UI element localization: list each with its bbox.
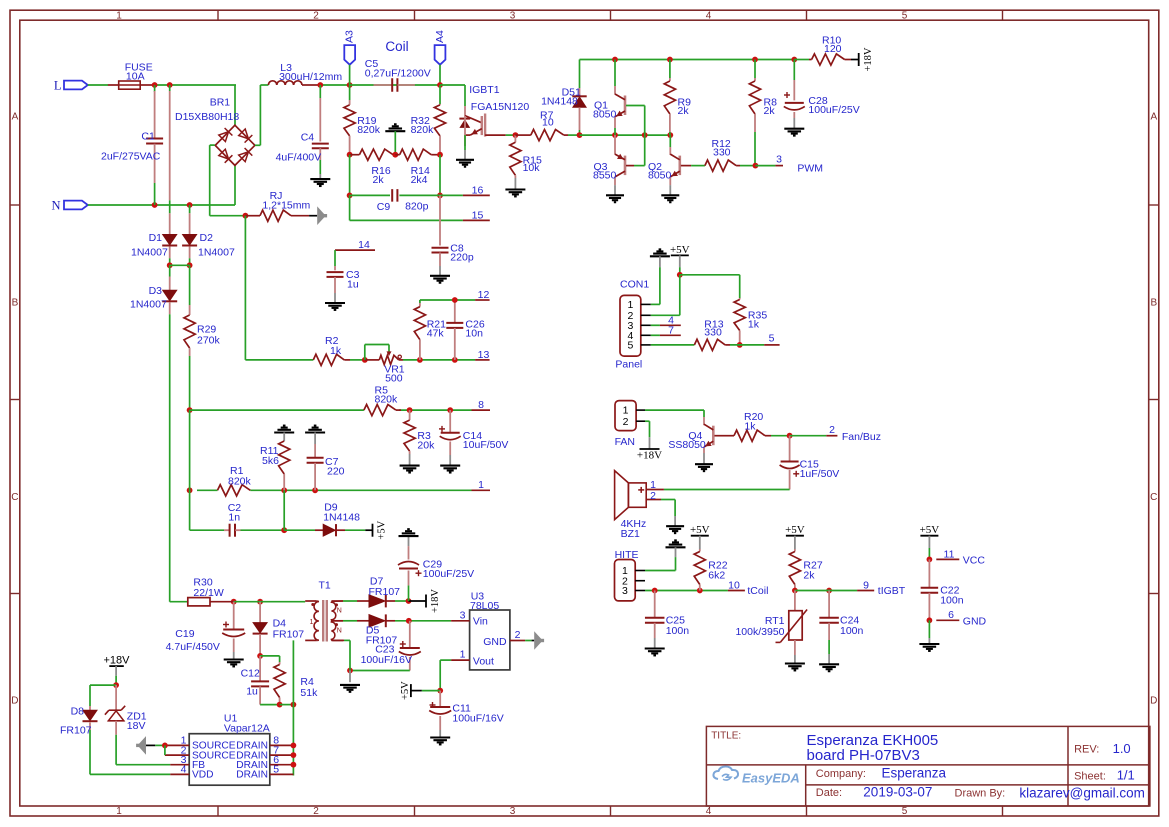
net 6 GND wire	[927, 609, 987, 644]
svg-text:7: 7	[668, 324, 674, 336]
svg-text:3: 3	[510, 10, 516, 21]
resistor R30 22/1W	[188, 576, 234, 605]
resistor R1 820k	[218, 465, 252, 496]
capacitor C24 100n	[819, 591, 863, 665]
net DC+ : L3 to C4 A3 C5	[317, 82, 440, 88]
svg-text:+18V: +18V	[863, 47, 874, 71]
svg-text:A4: A4	[434, 30, 446, 43]
svg-text:8050: 8050	[593, 108, 617, 120]
capacitor C11 100uF/16V	[429, 691, 504, 738]
resistor R27 2k	[789, 549, 823, 591]
capacitor C4 4uF/400V	[276, 85, 329, 179]
svg-text:20k: 20k	[417, 440, 435, 452]
svg-text:11: 11	[944, 548, 955, 560]
connector HITE	[615, 549, 646, 601]
svg-text:3: 3	[776, 154, 782, 166]
svg-text:+5V: +5V	[400, 681, 411, 700]
ground below C14	[440, 465, 460, 467]
svg-text:8: 8	[478, 399, 484, 411]
svg-text:8550: 8550	[593, 170, 617, 182]
ground below C25	[645, 647, 665, 649]
ground below R15	[505, 188, 525, 190]
svg-text:13: 13	[478, 349, 490, 361]
svg-text:2k: 2k	[803, 569, 815, 581]
svg-text:B: B	[12, 298, 19, 309]
svg-text:10n: 10n	[465, 328, 483, 340]
svg-text:+5V: +5V	[377, 520, 388, 539]
IC U3 78L05	[451, 591, 525, 670]
svg-text:820p: 820p	[405, 201, 429, 213]
svg-text:FR107: FR107	[369, 586, 401, 598]
transistor Q1 8050	[593, 60, 645, 136]
svg-text:9: 9	[863, 579, 869, 591]
svg-text:Vin: Vin	[473, 616, 488, 628]
diode D9 1N4148	[315, 502, 360, 537]
svg-text:Sheet:: Sheet:	[1074, 771, 1106, 783]
gray arrow net flag at RJ	[317, 206, 326, 225]
connector CON1	[615, 279, 650, 371]
ground above R16 R14	[385, 124, 405, 154]
ground above C7	[305, 426, 325, 458]
svg-text:330: 330	[713, 147, 731, 159]
resistor R14 2k4	[395, 149, 443, 186]
resistor R32 820k	[411, 104, 446, 155]
drive net wire y135	[580, 106, 674, 166]
svg-text:4.7uF/450V: 4.7uF/450V	[166, 641, 220, 653]
svg-text:1N4148: 1N4148	[323, 511, 360, 523]
ground below C22	[919, 643, 939, 645]
capacitor C8 220p	[432, 195, 474, 275]
svg-text:Panel: Panel	[615, 359, 642, 371]
capacitor C26 10n	[446, 300, 485, 360]
resistor R22 6k2	[694, 549, 728, 591]
svg-text:Date:: Date:	[816, 787, 842, 799]
capacitor C14 10uF/50V	[439, 410, 508, 466]
svg-text:FGA15N120: FGA15N120	[471, 101, 530, 113]
svg-text:4uF/400V: 4uF/400V	[276, 151, 322, 163]
gray arrow net flag at U1 pin1	[136, 736, 168, 755]
net label 3 PWM	[776, 154, 823, 175]
svg-text:1n: 1n	[228, 511, 240, 523]
net 1 wire	[187, 487, 490, 493]
capacitor C25 100n	[645, 591, 689, 649]
ground below C19	[224, 658, 244, 660]
svg-text:100uF/16V: 100uF/16V	[361, 654, 412, 666]
svg-text:1N4007: 1N4007	[131, 247, 168, 259]
svg-text:+18V: +18V	[430, 589, 441, 613]
svg-text:100uF/16V: 100uF/16V	[452, 713, 503, 725]
svg-text:2uF/275VAC: 2uF/275VAC	[101, 151, 161, 163]
svg-text:VCC: VCC	[963, 555, 986, 567]
svg-text:N: N	[337, 628, 342, 635]
svg-text:Vout: Vout	[473, 655, 494, 667]
svg-text:N: N	[51, 198, 60, 212]
svg-text:Esperanza: Esperanza	[882, 766, 947, 781]
capacitor C12 1u	[241, 656, 280, 705]
+18V rail wire	[580, 57, 798, 63]
svg-text:PWM: PWM	[797, 163, 823, 175]
wire T1 secondary mid to D5	[331, 620, 369, 622]
ground below C23 return	[340, 684, 360, 686]
junction gate node	[513, 132, 519, 138]
svg-text:Company:: Company:	[816, 768, 866, 780]
svg-text:15: 15	[472, 209, 484, 221]
svg-text:14: 14	[358, 239, 370, 251]
connector FAN	[615, 401, 645, 448]
svg-text:klazarev@gmail.com: klazarev@gmail.com	[1019, 785, 1145, 800]
svg-text:1k: 1k	[330, 345, 342, 357]
ground above R11	[274, 426, 294, 441]
wire R4 to primary return	[280, 640, 297, 775]
diode D7 FR107	[369, 576, 409, 608]
net flag +5V at R27	[785, 524, 805, 549]
svg-text:D1: D1	[149, 232, 163, 244]
net flag +5V at CON1	[670, 244, 690, 275]
diode D51 1N4148	[541, 60, 587, 139]
wire L to FUSE	[88, 84, 108, 86]
transistor IGBT1 FGA15N120	[459, 84, 529, 160]
svg-text:6: 6	[948, 609, 954, 621]
svg-text:5: 5	[902, 10, 908, 21]
net flag +5V at R22	[690, 524, 710, 549]
capacitor C5 0,27uF/1200V	[365, 58, 431, 92]
buzzer BZ1 4KHz	[615, 471, 664, 540]
svg-text:Fan/Buz: Fan/Buz	[842, 431, 881, 443]
svg-text:820k: 820k	[411, 124, 435, 136]
svg-text:Coil: Coil	[385, 39, 408, 54]
svg-text:N: N	[337, 608, 342, 615]
transistor Q2 8050	[648, 135, 691, 195]
svg-text:+18V: +18V	[637, 450, 662, 462]
svg-text:3: 3	[510, 806, 516, 817]
svg-text:BZ1: BZ1	[621, 528, 640, 540]
capacitor C22 100n	[921, 559, 964, 620]
title block	[706, 726, 1150, 806]
EasyEDA logo	[713, 767, 799, 786]
net A4 wire to R32 IGBT	[437, 82, 465, 106]
diode D3 1N4007	[130, 265, 177, 314]
ground below C24	[819, 663, 839, 665]
svg-text:1u: 1u	[246, 685, 258, 697]
svg-text:2: 2	[829, 424, 835, 436]
svg-text:2: 2	[650, 490, 656, 502]
svg-text:C12: C12	[241, 667, 260, 679]
svg-text:FAN: FAN	[615, 436, 635, 448]
resistor R5 820k	[364, 385, 401, 416]
svg-text:120: 120	[824, 43, 842, 55]
resistor R11 5k6	[260, 441, 290, 490]
transistor Q3 8550	[593, 135, 645, 195]
svg-text:T1: T1	[319, 580, 331, 592]
transformer T1	[305, 580, 343, 642]
capacitor C2 1n	[224, 502, 241, 537]
zener diode ZD1 18V	[105, 685, 147, 735]
svg-text:DRAIN: DRAIN	[236, 770, 268, 781]
svg-text:820k: 820k	[375, 394, 399, 406]
svg-text:+5V: +5V	[690, 524, 710, 536]
port L	[54, 78, 88, 92]
svg-text:D8: D8	[71, 706, 85, 718]
svg-text:SS8050: SS8050	[668, 439, 706, 451]
diode D8 FR107	[60, 706, 98, 737]
svg-text:5: 5	[627, 340, 633, 352]
net 13 wire	[403, 357, 490, 363]
svg-text:1N4007: 1N4007	[198, 247, 235, 259]
resistor R21 47k	[414, 300, 446, 360]
wire C15 to buzzer pin1	[664, 489, 790, 491]
wire BZ1 pin2 to ground	[661, 500, 675, 527]
svg-text:FR107: FR107	[273, 629, 305, 641]
resistor R15 10k	[510, 135, 542, 189]
svg-text:100n: 100n	[940, 594, 964, 606]
potentiometer VR1 500	[362, 345, 405, 385]
svg-text:tCoil: tCoil	[747, 585, 768, 597]
svg-text:500: 500	[385, 373, 403, 385]
svg-text:1: 1	[310, 619, 314, 626]
ground below BZ1	[666, 525, 684, 527]
net U3 Vout +5V	[411, 660, 451, 693]
diode D5 FR107	[366, 614, 451, 646]
svg-text:GND: GND	[963, 616, 987, 628]
svg-text:51k: 51k	[300, 687, 318, 699]
svg-text:C4: C4	[301, 132, 315, 144]
svg-text:2k: 2k	[373, 174, 385, 186]
thermistor RT1 100k/3950	[735, 591, 807, 664]
svg-text:47k: 47k	[427, 328, 445, 340]
svg-text:Drawn By:: Drawn By:	[955, 788, 1006, 800]
ground below C28	[784, 128, 804, 130]
wire CON1 pin2	[651, 314, 680, 316]
net L2: fuse to C1 D1 BR1	[152, 82, 236, 125]
diode D4 FR107	[253, 602, 305, 656]
svg-text:1uF/50V: 1uF/50V	[800, 468, 840, 480]
svg-text:100k/3950: 100k/3950	[735, 626, 784, 638]
svg-text:3: 3	[622, 585, 628, 597]
svg-text:10A: 10A	[126, 70, 145, 82]
svg-text:1N4148: 1N4148	[541, 96, 578, 108]
net 14 wire	[335, 250, 375, 266]
wire T1 secondary bottom	[331, 640, 350, 670]
wire D8 to U1 VDD	[90, 730, 170, 774]
net C2 D9 wire	[190, 410, 373, 533]
svg-text:CON1: CON1	[620, 279, 649, 291]
net 16 wires / C9	[347, 155, 490, 199]
svg-text:5k6: 5k6	[262, 455, 279, 467]
svg-text:+5V: +5V	[670, 244, 690, 256]
svg-text:1: 1	[478, 479, 484, 491]
capacitor C23 100uF/16V	[361, 621, 421, 671]
svg-text:220p: 220p	[450, 252, 474, 264]
svg-text:D2: D2	[200, 232, 214, 244]
svg-text:A3: A3	[344, 30, 356, 43]
svg-text:1N4007: 1N4007	[130, 299, 167, 311]
svg-text:BR1: BR1	[210, 97, 231, 109]
ground below C4	[310, 178, 330, 180]
net 2 Fan/Buz wire	[787, 424, 881, 443]
svg-text:1: 1	[460, 649, 466, 661]
svg-text:GND: GND	[483, 636, 507, 648]
svg-text:tIGBT: tIGBT	[878, 585, 906, 597]
resistor R8 2k	[749, 60, 777, 166]
capacitor C28 100uF/25V	[784, 60, 860, 129]
svg-text:3: 3	[460, 609, 466, 621]
svg-text:10k: 10k	[523, 162, 541, 174]
svg-text:5: 5	[769, 333, 775, 345]
svg-text:1/1: 1/1	[1117, 768, 1135, 783]
svg-text:VDD: VDD	[192, 770, 214, 781]
svg-text:820k: 820k	[357, 124, 381, 136]
svg-text:C: C	[11, 492, 18, 503]
svg-text:2k: 2k	[678, 105, 690, 117]
svg-text:8050: 8050	[648, 170, 672, 182]
IC U1 Vapar12A	[165, 713, 296, 786]
svg-text:C1: C1	[141, 131, 155, 143]
ground below RT1	[785, 662, 805, 664]
net flag A4	[434, 30, 446, 85]
ground below C3	[325, 302, 345, 304]
svg-text:2: 2	[515, 629, 521, 641]
wire C23 bottom to ground	[347, 668, 410, 683]
resistor R12 330	[691, 138, 783, 171]
svg-text:A: A	[1150, 112, 1157, 123]
svg-text:1,2*15mm: 1,2*15mm	[262, 200, 310, 212]
svg-text:REV:: REV:	[1074, 744, 1099, 756]
svg-text:18V: 18V	[127, 720, 146, 732]
svg-text:2: 2	[313, 10, 319, 21]
transistor Q4 SS8050	[668, 417, 718, 464]
ground above C29	[399, 535, 419, 537]
wire ZD1 to U1 FB	[116, 735, 170, 765]
svg-text:100n: 100n	[840, 625, 864, 637]
resistor R16 2k	[347, 149, 398, 186]
net 5 wire CON1 pin5	[651, 333, 780, 348]
svg-text:IGBT1: IGBT1	[469, 84, 500, 96]
capacitor C15 1uF/50V	[780, 436, 840, 490]
capacitor C3 1u	[327, 266, 360, 303]
resistor R10 120	[794, 35, 858, 66]
junction D1 D2 D3	[167, 262, 193, 268]
net flag +18V at D7	[425, 595, 427, 608]
svg-text:+5V: +5V	[785, 524, 805, 536]
net D7 out +18V C29	[406, 598, 426, 604]
svg-text:L: L	[54, 78, 62, 92]
port N	[51, 198, 87, 212]
svg-text:2: 2	[313, 806, 319, 817]
svg-text:1k: 1k	[748, 318, 760, 330]
gray arrow net flag at U3 GND	[534, 631, 543, 650]
svg-text:22/1W: 22/1W	[193, 587, 223, 599]
capacitor C29 100uF/25V	[398, 536, 474, 601]
svg-text:C: C	[1150, 492, 1157, 503]
ground above CON1 pin1	[650, 249, 670, 304]
bridge rectifier BR1 D15XB80H18	[175, 97, 255, 166]
svg-text:100uF/25V: 100uF/25V	[423, 568, 474, 580]
net flag +5V at D9	[372, 524, 374, 537]
resistor R4 51k	[274, 662, 318, 707]
svg-text:1.0: 1.0	[1113, 741, 1131, 756]
svg-text:1: 1	[116, 10, 122, 21]
fuse FUSE 10A	[108, 62, 153, 90]
svg-text:2k4: 2k4	[411, 174, 428, 186]
svg-text:10: 10	[728, 579, 740, 591]
svg-text:+5V: +5V	[920, 524, 940, 536]
svg-text:6k2: 6k2	[708, 569, 725, 581]
svg-text:EasyEDA: EasyEDA	[742, 771, 800, 786]
resistor R3 20k	[404, 410, 435, 466]
svg-text:2k: 2k	[764, 105, 776, 117]
diode D2 1N4007	[182, 205, 235, 265]
svg-text:TITLE:: TITLE:	[711, 731, 741, 742]
svg-text:Vapar12A: Vapar12A	[224, 722, 270, 734]
ground below R3	[400, 465, 420, 467]
net 15 wire	[350, 195, 490, 220]
svg-text:220: 220	[327, 466, 345, 478]
wire T1 secondary top to D7	[331, 600, 369, 602]
svg-text:D: D	[11, 696, 18, 707]
ground below IGBT1	[456, 159, 474, 161]
net 8 wire	[187, 407, 490, 413]
svg-text:12: 12	[478, 289, 490, 301]
net flag +18V bottom left	[104, 655, 131, 685]
svg-text:0,27uF/1200V: 0,27uF/1200V	[365, 68, 431, 80]
resistor R13 330	[694, 318, 730, 350]
net 11 VCC wire	[927, 548, 986, 566]
resistor R35 1k	[734, 298, 767, 345]
resistor R29 270k	[184, 265, 221, 410]
svg-text:A: A	[12, 112, 19, 123]
svg-text:C9: C9	[377, 201, 391, 213]
ground below Q3	[606, 194, 624, 196]
capacitor C9 820p	[377, 189, 429, 213]
ground below Q2	[661, 194, 679, 196]
wire D3 down to R30 line	[169, 314, 171, 602]
resistor R9 2k	[664, 60, 691, 136]
svg-text:D: D	[1150, 696, 1157, 707]
net +18V to D8 ZD1	[90, 682, 119, 706]
capacitor C7 220	[307, 456, 345, 491]
net 9 tIGBT wire	[792, 579, 906, 597]
svg-text:C19: C19	[175, 628, 194, 640]
resistor R20 1k	[718, 411, 790, 442]
net flag +18V at R10	[858, 53, 860, 66]
resistor R7 10	[515, 110, 579, 141]
wire CON1 pin1	[651, 303, 660, 305]
svg-text:4: 4	[706, 10, 712, 21]
ground below C8	[430, 275, 450, 277]
net CON1 +5V to R35	[677, 272, 740, 315]
svg-text:B: B	[1150, 298, 1157, 309]
wire BR1 left down to RJ	[210, 145, 249, 219]
svg-text:16: 16	[472, 184, 484, 196]
resistor R2 1k	[313, 335, 365, 366]
inductor L3 300uH/12mm	[268, 62, 342, 85]
svg-text:2: 2	[623, 416, 629, 428]
wire BR1 right to L3	[255, 85, 269, 145]
net flag +18V below FAN pin2	[637, 421, 662, 461]
svg-text:HITE: HITE	[615, 549, 639, 561]
wire FAN pin1 to Q4	[645, 410, 704, 417]
svg-text:+18V: +18V	[104, 655, 131, 667]
svg-text:4: 4	[706, 806, 712, 817]
resistor RJ 1,2*15mm	[245, 190, 317, 221]
net D4 to C12 R4	[257, 653, 279, 662]
svg-text:300uH/12mm: 300uH/12mm	[279, 71, 342, 83]
svg-text:D3: D3	[149, 285, 163, 297]
svg-text:1k: 1k	[744, 420, 756, 432]
net flag +5V at C22	[920, 524, 940, 559]
ground below C11	[430, 736, 450, 738]
svg-text:270k: 270k	[197, 334, 221, 346]
